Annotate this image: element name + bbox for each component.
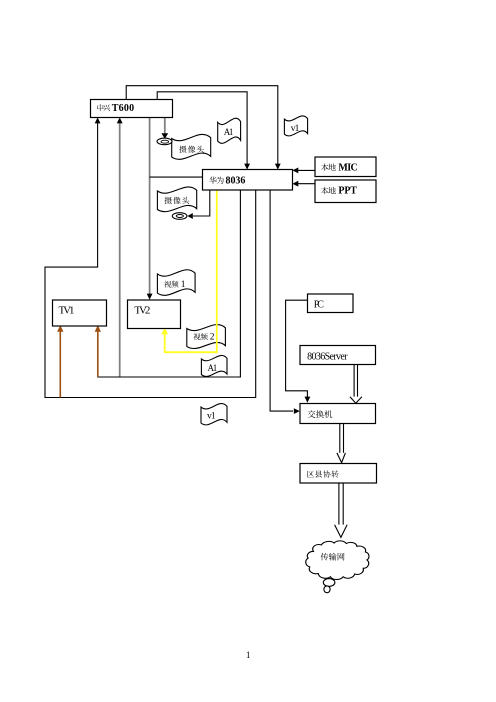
svg-text:PC: PC [314, 299, 325, 310]
svg-text:v1: v1 [207, 412, 216, 422]
hollow arrow server to switch [350, 365, 362, 404]
svg-text:T600: T600 [112, 103, 134, 114]
hollow arrow switch to district [337, 424, 346, 463]
flag video 2 [187, 325, 226, 349]
svg-text:PPT: PPT [338, 186, 357, 197]
box switch [300, 404, 376, 424]
wire: brown arrow from line A to TV1 [95, 325, 101, 377]
svg-text:1: 1 [246, 650, 251, 660]
svg-text:8036Server: 8036Server [307, 351, 348, 362]
box district converter [300, 464, 377, 484]
svg-text:MIC: MIC [338, 162, 357, 173]
box ZTE T600 [91, 100, 173, 118]
box 8036Server [300, 346, 376, 365]
box local PPT [315, 180, 376, 203]
wire: brown arrow from line B to TV1 [57, 325, 63, 397]
svg-text:TV2: TV2 [134, 304, 150, 316]
svg-text:A1: A1 [224, 127, 234, 137]
flag v1 (lower) [201, 404, 227, 425]
svg-text:8036: 8036 [226, 176, 246, 187]
wire: gray line ZTE bottom down to TV2 with branch to Huawei left [147, 117, 203, 300]
wire: gray line ZTE bottom to camera1 [161, 117, 168, 139]
svg-text:v1: v1 [291, 124, 300, 134]
box TV1 [53, 300, 107, 326]
wire: gray line A riser into ZTE bottom [117, 117, 123, 377]
camera symbol 1 (double ellipse) [157, 138, 172, 145]
wire: MIC to Huawei arrow [292, 168, 315, 174]
flag v1 (top) [284, 116, 307, 136]
flag video 1 [157, 270, 195, 296]
wire: Huawei bottom big loop left up into ZTE bottom [45, 117, 256, 397]
camera symbol 2 (double ellipse) [172, 213, 187, 220]
wire: line A horizontal from Huawei bottom [97, 190, 240, 377]
wire: ZTE top loop 1 to Huawei (outer) [126, 86, 280, 170]
wire: Huawei bottom to switch left [270, 190, 300, 414]
flag A1 (top) [218, 118, 241, 143]
box PC [308, 294, 354, 313]
flag A1 (lower) [201, 355, 227, 376]
box local MIC [315, 157, 376, 177]
svg-text:TV1: TV1 [59, 304, 75, 316]
wire: yellow Huawei to TV2 [161, 190, 217, 352]
box TV2 [128, 300, 181, 329]
flag camera label 2 [157, 187, 196, 212]
cloud transmission network [306, 541, 369, 593]
wire: Huawei bottom to camera2 [187, 190, 209, 219]
wire: PPT to Huawei arrow [292, 181, 315, 187]
hollow arrow district to cloud [335, 483, 348, 537]
svg-text:A1: A1 [208, 363, 218, 373]
box Huawei 8036 [203, 170, 293, 191]
svg-text:2: 2 [210, 333, 215, 343]
wire: ZTE top loop 2 to Huawei (inner) [157, 92, 250, 170]
wire: PC loop down into switch top [286, 300, 311, 403]
svg-text:1: 1 [181, 280, 186, 290]
flag camera label 1 [172, 134, 211, 159]
